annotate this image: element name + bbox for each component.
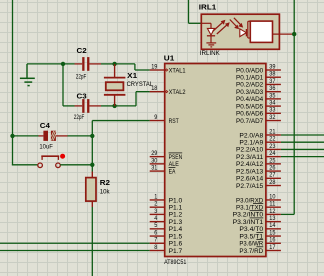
wire IRL1 input vertical (189, 0, 202, 23)
svg-text:25: 25 (269, 158, 276, 164)
wire bus P1.7 (0, 250, 150, 252)
node crystal top junction (112, 62, 116, 66)
svg-text:P0.5/AD5: P0.5/AD5 (236, 103, 264, 110)
svg-text:P2.0/A8: P2.0/A8 (239, 132, 263, 139)
pin ALE (30) (150, 158, 179, 168)
svg-text:P0.7/AD7: P0.7/AD7 (236, 118, 264, 125)
svg-text:P0.2/AD2: P0.2/AD2 (236, 82, 264, 89)
capacitor C2 (75, 57, 102, 71)
pin P1.5 (6) (150, 230, 183, 240)
svg-text:RST: RST (169, 118, 179, 125)
svg-text:XTAL1: XTAL1 (169, 67, 186, 74)
svg-text:10k: 10k (100, 190, 111, 196)
pin P2.1/A9 (22) (239, 137, 280, 147)
wire C2 to crystal top (101, 63, 115, 65)
pin P3.1/TXD (11) (236, 202, 281, 212)
wire P2.2 to edge (281, 148, 324, 150)
svg-text:34: 34 (269, 101, 276, 107)
svg-text:18: 18 (151, 86, 158, 92)
svg-text:35: 35 (269, 93, 276, 99)
IR LED ground (206, 43, 216, 47)
IR transmit arrows (213, 20, 230, 34)
label C3 (77, 93, 87, 100)
svg-text:X1: X1 (127, 73, 137, 80)
svg-text:R2: R2 (100, 180, 110, 187)
pin P2.6/A14 (27) (236, 173, 281, 183)
wire crystal junction to XTAL1 (115, 64, 150, 70)
wire bus P1.6 (0, 242, 150, 244)
pin P3.4/T0 (14) (239, 223, 280, 233)
svg-text:P2.2/A10: P2.2/A10 (236, 147, 264, 154)
svg-text:U1: U1 (164, 56, 175, 63)
svg-text:AT89C51: AT89C51 (164, 260, 187, 266)
pin P2.5/A13 (26) (236, 165, 281, 175)
pin P3.3/INT1 (13) (233, 216, 281, 226)
IR link IRL1 box (201, 14, 279, 49)
pin P0.7/AD7 (32) (236, 115, 281, 125)
pin P3.0/RXD (10) (236, 194, 281, 204)
wire VCC to C4 (13, 135, 39, 137)
wire IRL1 output (273, 33, 294, 35)
pin P3.7/RD (17) (239, 245, 280, 255)
wire junction down to C3 (62, 64, 64, 106)
svg-text:29: 29 (151, 151, 158, 157)
pin P0.0/AD0 (39) (236, 64, 281, 74)
wire ground to C2 (27, 63, 75, 65)
svg-text:P1.4: P1.4 (169, 226, 183, 233)
svg-text:23: 23 (269, 144, 276, 150)
svg-text:24: 24 (269, 151, 276, 157)
svg-text:CRYSTAL: CRYSTAL (127, 82, 154, 88)
svg-text:16: 16 (269, 238, 276, 244)
label C2 (77, 48, 87, 55)
wire to C3 left (63, 105, 75, 107)
svg-text:27: 27 (269, 173, 276, 179)
pin XTAL2 (18) (150, 86, 186, 96)
node RST-C4 junction (90, 134, 94, 138)
pin XTAL1 (19) (150, 64, 186, 74)
pin P0.5/AD5 (34) (236, 101, 281, 111)
svg-text:36: 36 (269, 86, 276, 92)
chip U1 AT89C51 body (165, 64, 266, 257)
svg-text:30: 30 (151, 158, 158, 164)
svg-text:13: 13 (269, 216, 276, 222)
svg-text:10: 10 (269, 194, 276, 200)
svg-text:P2.4/A12: P2.4/A12 (236, 161, 264, 168)
pin P1.4 (5) (150, 223, 183, 233)
pin P0.6/AD6 (33) (236, 108, 281, 118)
svg-text:P1.2: P1.2 (169, 212, 183, 219)
svg-text:14: 14 (269, 223, 276, 229)
pin P1.0 (1) (150, 194, 183, 204)
svg-text:P0.3/AD3: P0.3/AD3 (236, 89, 264, 96)
pin P0.3/AD3 (36) (236, 86, 281, 96)
svg-text:12: 12 (269, 209, 276, 215)
crystal X1 (104, 64, 126, 106)
label AT89C51 (164, 260, 187, 266)
value 10uF (39, 145, 53, 151)
svg-text:28: 28 (269, 180, 276, 186)
pin P0.1/AD1 (38) (236, 72, 281, 82)
pin P2.4/A12 (25) (236, 158, 281, 168)
button state dot (60, 154, 65, 159)
svg-text:P0.4/AD4: P0.4/AD4 (236, 96, 264, 103)
value 10k (100, 190, 111, 196)
pin P2.2/A10 (23) (236, 144, 281, 154)
label R2 (100, 180, 110, 187)
wire button to RST net (60, 164, 92, 166)
pin EA (31) (150, 165, 176, 175)
pin P2.0/A8 (21) (239, 129, 280, 139)
svg-text:19: 19 (151, 64, 158, 70)
svg-text:11: 11 (269, 202, 276, 208)
wire P2.0 to edge (281, 134, 324, 136)
svg-text:22pF: 22pF (76, 75, 87, 81)
svg-text:26: 26 (269, 165, 276, 171)
svg-text:P0.6/AD6: P0.6/AD6 (236, 111, 264, 118)
pin P2.3/A11 (24) (236, 151, 281, 161)
pin P1.6 (7) (150, 238, 183, 248)
svg-text:P1.1: P1.1 (169, 204, 183, 211)
svg-text:P3.3/INT1: P3.3/INT1 (233, 219, 264, 226)
svg-text:IRL1: IRL1 (199, 4, 217, 11)
svg-text:17: 17 (269, 245, 276, 251)
wire VCC left vertical (12, 0, 14, 165)
svg-text:P1.5: P1.5 (169, 233, 183, 240)
node RST-button junction (90, 163, 94, 167)
svg-text:IRLINK: IRLINK (200, 51, 220, 57)
pin P0.4/AD4 (35) (236, 93, 281, 103)
label C4 (40, 123, 50, 130)
svg-text:P0.1/AD1: P0.1/AD1 (236, 75, 264, 82)
svg-text:38: 38 (269, 72, 276, 78)
pin PSEN (29) (150, 151, 183, 161)
IR photodiode (240, 21, 251, 38)
svg-text:PSEN: PSEN (169, 154, 183, 161)
wire C3 to crystal bottom (101, 105, 115, 107)
svg-text:P1.0: P1.0 (169, 197, 183, 204)
node VCC-C4 junction (10, 134, 14, 138)
label U1 (164, 56, 175, 63)
pin P3.5/T1 (15) (239, 230, 280, 240)
wire button row left (12, 164, 38, 166)
svg-text:C4: C4 (40, 123, 50, 130)
value 22pF C2 (76, 75, 87, 81)
value IRLINK (200, 51, 220, 57)
svg-text:P2.5/A13: P2.5/A13 (236, 168, 264, 175)
pin P1.1 (2) (150, 202, 183, 212)
svg-text:XTAL2: XTAL2 (169, 89, 186, 96)
capacitor C3 (75, 99, 102, 113)
IR LED (201, 23, 215, 42)
svg-text:22pF: 22pF (74, 115, 85, 121)
svg-text:P3.7/RD: P3.7/RD (239, 248, 263, 255)
pin P1.7 (8) (150, 245, 183, 255)
svg-text:37: 37 (269, 79, 276, 85)
value CRYSTAL (127, 82, 154, 88)
resistor R2 (86, 172, 96, 208)
svg-text:P2.1/A9: P2.1/A9 (239, 140, 263, 147)
svg-text:22: 22 (269, 137, 276, 143)
pin P0.2/AD2 (37) (236, 79, 281, 89)
svg-text:P1.7: P1.7 (169, 248, 183, 255)
wire crystal junction to XTAL2 (115, 92, 150, 106)
wire RST net (92, 121, 150, 172)
svg-text:31: 31 (151, 165, 158, 171)
svg-text:10uF: 10uF (39, 145, 53, 151)
node crystal bottom junction (112, 104, 116, 108)
wire R2 to bottom (91, 207, 93, 276)
wire P2.1 to edge (281, 141, 324, 143)
pin P1.2 (3) (150, 209, 183, 219)
capacitor C4 (39, 131, 68, 141)
push button reset (38, 156, 61, 167)
svg-text:P0.0/AD0: P0.0/AD0 (236, 67, 264, 74)
svg-text:33: 33 (269, 108, 276, 114)
wire P2.3 to edge (281, 156, 324, 158)
IR receive arrows (230, 18, 243, 30)
node IRL1 output junction (292, 32, 296, 36)
svg-text:21: 21 (269, 129, 276, 135)
ground (20, 64, 35, 86)
svg-text:P1.3: P1.3 (169, 219, 183, 226)
pin P1.3 (4) (150, 216, 183, 226)
label IRL1 (199, 4, 217, 11)
svg-text:C3: C3 (77, 93, 87, 100)
svg-text:P1.6: P1.6 (169, 241, 183, 248)
wire IRL1 to INT0 vertical (281, 0, 294, 214)
IR receiver box (250, 21, 272, 42)
value 22pF C3 (74, 115, 85, 121)
pin P2.7/A15 (28) (236, 180, 281, 190)
wire C4 to RST net (68, 135, 93, 137)
svg-text:39: 39 (269, 64, 276, 70)
pin P3.2/INT0 (12) (233, 209, 281, 219)
svg-text:P2.3/A11: P2.3/A11 (236, 154, 264, 161)
label X1 (127, 73, 137, 80)
pin P3.6/WR (16) (239, 238, 280, 248)
svg-text:C2: C2 (77, 48, 87, 55)
svg-text:P2.7/A15: P2.7/A15 (236, 183, 264, 190)
node junction at C2 wire (61, 62, 65, 66)
svg-text:P2.6/A14: P2.6/A14 (236, 176, 264, 183)
svg-text:EA: EA (169, 168, 176, 175)
svg-text:15: 15 (269, 230, 276, 236)
svg-text:32: 32 (269, 115, 276, 121)
pin RST (9) (150, 115, 179, 125)
